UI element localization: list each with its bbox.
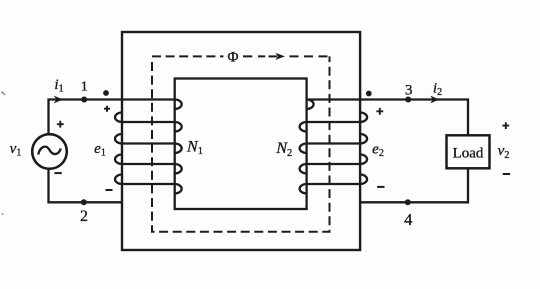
svg-text:Load: Load — [453, 146, 484, 162]
svg-text:3: 3 — [405, 83, 413, 99]
svg-text:4: 4 — [404, 210, 412, 229]
svg-text:Φ: Φ — [228, 50, 239, 66]
svg-text:1: 1 — [81, 79, 88, 94]
svg-text:2: 2 — [80, 208, 88, 225]
